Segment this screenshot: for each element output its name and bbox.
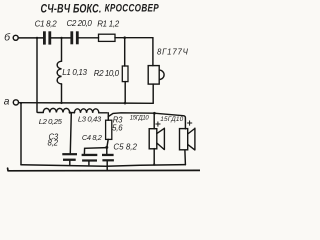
svg-text:R2 10,0: R2 10,0: [94, 69, 120, 78]
resistor R3: [106, 120, 112, 146]
svg-text:С2 20,0: С2 20,0: [67, 19, 93, 28]
node a corner: [20, 102, 22, 104]
node R2 top: [123, 36, 126, 39]
bottom bus wire: [21, 165, 185, 167]
wire R1 to corner: [115, 37, 153, 39]
inductor L3: [74, 109, 98, 113]
resistor R1: [99, 34, 116, 41]
wire node down to R3: [107, 113, 109, 120]
inductor L1: [57, 38, 61, 103]
svg-text:15ГД10: 15ГД10: [160, 116, 183, 123]
node R2 bottom: [124, 102, 127, 105]
resistor R2: [122, 38, 128, 103]
wire junction to L3: [70, 112, 75, 114]
wire L3 to R3 node: [99, 112, 107, 114]
wire C3 stub from L2-L3 junction: [70, 113, 71, 153]
speaker BA3: [180, 128, 195, 164]
svg-text:15ГД10: 15ГД10: [130, 115, 150, 121]
svg-text:КРОССОВЕР: КРОССОВЕР: [105, 2, 159, 15]
node L2-L3 junction: [69, 111, 71, 113]
node junction L1 top: [60, 37, 62, 39]
node R3 bottom: [105, 146, 108, 149]
node at x37 top: [36, 37, 38, 39]
wire C2 to R1: [79, 37, 99, 39]
plus mark BA2: [156, 122, 160, 126]
wire speaker line: [108, 113, 185, 129]
wire top from terminal to C1: [18, 37, 43, 39]
capacitor C3: [62, 153, 77, 165]
title: [41, 2, 160, 16]
svg-text:L1 0,13: L1 0,13: [62, 68, 87, 77]
wire node to C4: [84, 148, 106, 154]
svg-text:б: б: [4, 31, 11, 43]
riser wire from a down to bottom bus: [20, 103, 22, 165]
wire BA1 bottom to bus: [152, 84, 154, 103]
mid bus wire: [19, 102, 154, 105]
capacitor C5: [102, 154, 114, 171]
node L1 bottom: [60, 102, 62, 104]
svg-text:L2 0,25: L2 0,25: [39, 117, 63, 126]
wire node to C5: [106, 148, 108, 154]
plus mark BA3: [188, 121, 192, 125]
svg-text:L3 0,43: L3 0,43: [78, 115, 102, 124]
capacitor C1: [43, 31, 51, 44]
inductor L2: [43, 108, 69, 112]
svg-text:СЧ-ВЧ БОКС.: СЧ-ВЧ БОКС.: [41, 2, 102, 16]
wire corner down to speaker BA1: [152, 38, 154, 66]
capacitor C2: [70, 31, 78, 44]
svg-text:8Г177Ч: 8Г177Ч: [157, 48, 189, 57]
page border line: [8, 168, 200, 171]
terminal b circle: [13, 35, 18, 40]
svg-text:R1 1,2: R1 1,2: [97, 19, 120, 28]
vertical wire from b-node down crossing bus: [37, 38, 43, 113]
svg-text:С5 8,2: С5 8,2: [113, 143, 137, 152]
node speaker1 top: [153, 112, 156, 115]
svg-text:С4 8,2: С4 8,2: [82, 133, 102, 142]
wire C1 to C2: [51, 37, 70, 39]
speaker BA2: [149, 113, 164, 164]
terminal a circle: [13, 100, 18, 105]
speaker BA1 tweeter: [148, 66, 164, 85]
capacitor C4: [82, 154, 98, 165]
node speaker BA2 bottom: [153, 163, 155, 165]
svg-text:а: а: [4, 96, 10, 107]
svg-text:8,2: 8,2: [48, 139, 59, 148]
svg-text:5,6: 5,6: [112, 123, 123, 132]
svg-text:С1 8,2: С1 8,2: [35, 19, 58, 28]
